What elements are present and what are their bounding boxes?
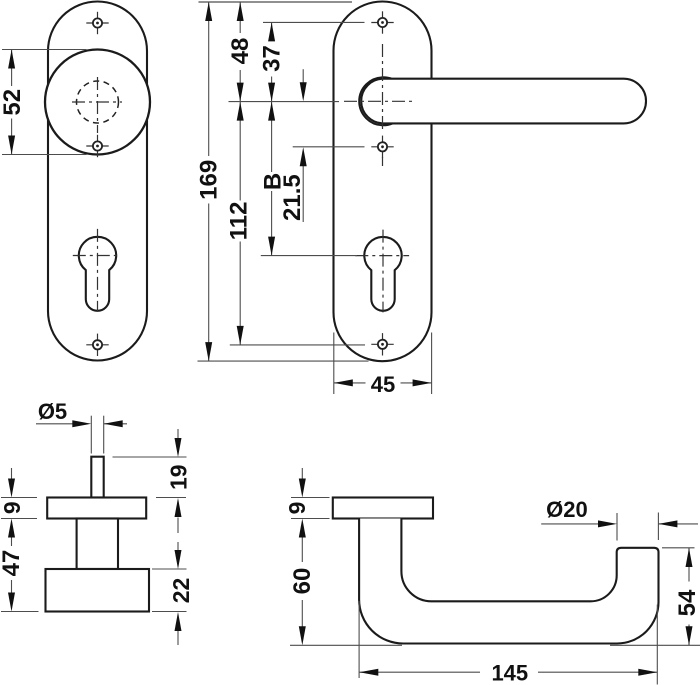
svg-text:37: 37 (258, 45, 285, 72)
svg-text:47: 47 (0, 550, 25, 577)
svg-text:22: 22 (168, 578, 194, 604)
svg-text:48: 48 (227, 38, 254, 65)
svg-text:9: 9 (0, 501, 25, 514)
svg-text:52: 52 (0, 89, 26, 116)
svg-text:9: 9 (284, 502, 310, 515)
svg-text:Ø20: Ø20 (546, 497, 588, 522)
svg-text:145: 145 (491, 660, 528, 685)
svg-text:112: 112 (225, 202, 252, 241)
svg-text:169: 169 (195, 160, 222, 200)
svg-text:60: 60 (289, 568, 316, 595)
svg-text:21.5: 21.5 (279, 174, 306, 221)
svg-text:19: 19 (166, 464, 192, 490)
svg-text:54: 54 (674, 589, 700, 616)
svg-text:Ø5: Ø5 (38, 399, 67, 424)
svg-text:45: 45 (371, 372, 395, 397)
